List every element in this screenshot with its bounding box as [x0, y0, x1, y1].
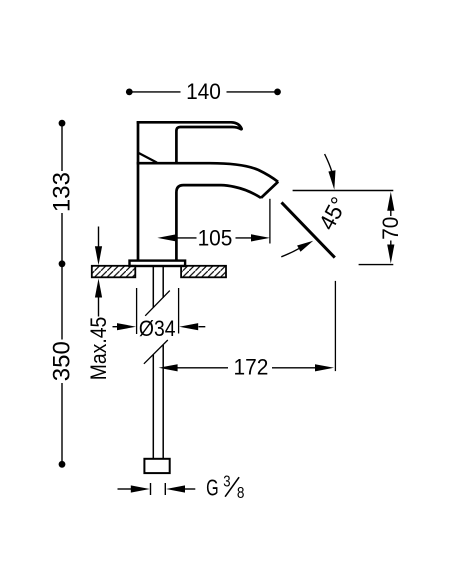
spout top edge	[137, 163, 278, 182]
dimension O34 left arrow	[113, 326, 119, 328]
spout underside	[176, 185, 261, 261]
svg-text:8: 8	[237, 485, 245, 502]
dimension 70 lower arrow	[390, 241, 392, 246]
svg-text:3: 3	[223, 473, 230, 490]
countertop hatched left	[92, 266, 136, 278]
dimension dot top	[59, 120, 66, 127]
dimension dot bottom	[59, 461, 66, 468]
dimension Max.45 lower arrow	[98, 297, 100, 317]
dimension 140 dot right	[274, 89, 281, 96]
45 degree spray line	[282, 202, 335, 257]
head chamfer	[138, 153, 157, 163]
base flange	[130, 261, 186, 266]
dimension 133/350 line	[61, 126, 63, 461]
pipe break slash 1	[145, 291, 170, 316]
pipe break slash 2	[144, 340, 168, 364]
faucet body left edge	[137, 121, 140, 261]
dimension Max.45 upper arrow	[98, 227, 100, 248]
dimension G3/8 right arrow	[185, 488, 196, 490]
svg-text:G: G	[206, 476, 219, 501]
svg-text:70: 70	[378, 217, 403, 240]
dimension 105 right arrow	[251, 234, 270, 241]
dimension 172 right arrow	[315, 364, 334, 371]
dimension 105 extension line	[269, 199, 271, 244]
45 degree leader bottom	[281, 248, 299, 256]
dimension 140 line	[129, 91, 277, 93]
svg-text:350: 350	[49, 341, 76, 381]
dimension 172 left arrow	[159, 364, 178, 371]
dimension O34 right arrow	[199, 326, 206, 328]
svg-text:105: 105	[198, 226, 233, 251]
thread size fraction slash	[225, 477, 239, 497]
supply pipe lower	[153, 345, 163, 459]
dimension O34 extension lines	[137, 288, 179, 334]
outlet tangent line	[293, 190, 394, 192]
svg-text:140: 140	[186, 80, 221, 105]
dimension 105 line	[177, 237, 253, 239]
45 degree leader top	[325, 154, 332, 172]
svg-text:Max.45: Max.45	[87, 317, 111, 380]
dimension 105 left arrow	[157, 234, 176, 241]
dimension 70 upper arrow	[390, 211, 392, 217]
spout cut edge	[261, 182, 278, 198]
pipe end fitting	[144, 459, 169, 473]
faucet lever handle	[137, 122, 242, 163]
dimension 172 extension line	[334, 281, 336, 371]
dimension G3/8 left arrow	[118, 488, 132, 490]
svg-text:172: 172	[233, 355, 268, 380]
dimension 140 dot left	[126, 89, 133, 96]
svg-text:Ø34: Ø34	[139, 317, 176, 341]
dimension 70 bottom tick	[359, 264, 394, 266]
countertop hatched right	[181, 266, 226, 278]
svg-text:133: 133	[49, 172, 76, 212]
dimension dot middle	[59, 260, 66, 267]
supply pipe upper	[153, 266, 163, 308]
dimension 172 line	[177, 367, 316, 369]
dimension G3/8 ticks	[151, 483, 166, 495]
